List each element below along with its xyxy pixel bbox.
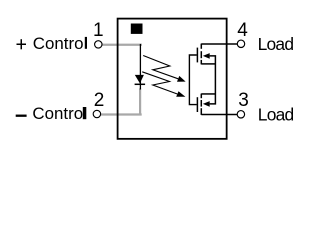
svg-text:Load: Load [258, 34, 294, 54]
svg-text:2: 2 [94, 90, 105, 111]
svg-text:3: 3 [238, 90, 249, 111]
svg-text:4: 4 [237, 20, 248, 41]
svg-text:1: 1 [93, 20, 104, 41]
svg-text:Contro: Contro [33, 34, 84, 53]
svg-text:Load: Load [258, 104, 294, 124]
svg-text:Contro: Contro [32, 104, 83, 123]
